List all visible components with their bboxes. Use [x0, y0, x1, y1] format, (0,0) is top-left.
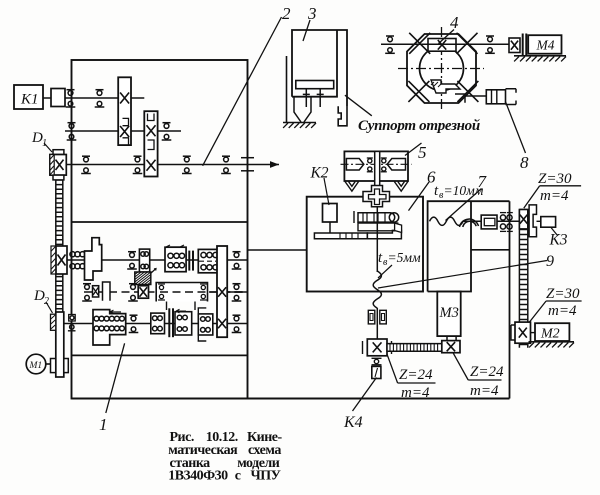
sliding gear block Z1	[118, 77, 131, 145]
svg-text:m=4: m=4	[470, 383, 499, 399]
label Z30 m4 bottom	[529, 286, 581, 322]
caption line 1	[170, 430, 283, 445]
motor M4	[528, 35, 561, 54]
friction clutch hatched	[135, 269, 156, 285]
bearing circles shaft IV at wall	[70, 252, 85, 269]
switch K4	[372, 366, 381, 378]
gear box shaft VI mid	[151, 313, 165, 334]
horizontal screw wavy t10	[430, 217, 482, 227]
double arrow over clutch gear	[166, 245, 184, 249]
svg-text:М4: М4	[536, 37, 555, 52]
svg-text:1В340Ф30: 1В340Ф30	[168, 469, 228, 484]
bearing shaft V left	[82, 284, 92, 301]
svg-text:М3: М3	[439, 305, 459, 321]
svg-text:8: 8	[520, 153, 529, 172]
svg-text:=5мм: =5мм	[388, 250, 421, 265]
tall double gear block shafts V-VI	[217, 246, 227, 337]
gear sleeve with rollers shaft IV	[139, 249, 149, 272]
label 2	[203, 4, 291, 166]
wire shaft IV	[56, 259, 248, 261]
pulley D1	[50, 150, 66, 180]
svg-text:М2: М2	[540, 327, 560, 342]
bearing turret shaft right	[485, 36, 495, 53]
clutch plates shaft VI	[168, 308, 170, 337]
wire connector to gearbox	[248, 249, 307, 251]
bearing shaft III	[182, 156, 192, 173]
svg-text:3: 3	[307, 4, 317, 23]
motor M1	[26, 354, 50, 374]
label tv=5mm	[378, 250, 421, 278]
stepped hub shaft IV	[85, 238, 102, 280]
svg-text:К2: К2	[310, 165, 329, 182]
svg-text:с: с	[235, 469, 241, 484]
machine bed bottom line	[72, 398, 510, 400]
hydraulic cylinder	[465, 89, 516, 105]
pinion Z30 top	[519, 210, 527, 229]
vertical rack	[519, 210, 527, 348]
gear box shaft VI right	[198, 302, 213, 341]
fixed gear shaft V	[138, 286, 148, 299]
belt gear on shaft IV	[51, 246, 67, 274]
wall crossing marks shaft III	[241, 157, 254, 159]
bearing shaft I at wall	[66, 90, 76, 107]
coupling on shaft I	[51, 89, 65, 107]
coupling flange M4	[522, 34, 524, 57]
svg-text:m=4: m=4	[540, 188, 569, 204]
label 9	[378, 253, 554, 288]
label 5	[405, 143, 427, 162]
collet cross actuator	[363, 186, 390, 207]
hub shaft V left	[103, 282, 111, 301]
bearing shaft II	[162, 123, 172, 140]
label 3	[303, 4, 317, 41]
bearing shaft IV	[127, 252, 137, 269]
feed drum cylinder	[354, 211, 402, 233]
label 8	[506, 102, 530, 172]
label 7	[446, 172, 488, 221]
gear cluster shaft VI left	[93, 310, 126, 345]
svg-text:4: 4	[450, 13, 459, 32]
svg-text:m=4: m=4	[548, 303, 577, 319]
gear box shaft VI	[175, 309, 192, 335]
bearing shaft V mid	[128, 284, 138, 301]
label D2	[33, 288, 53, 313]
motor M2	[535, 323, 569, 341]
label Z30 m4 top	[524, 171, 581, 208]
long sleeve shaft V	[156, 283, 247, 311]
collet draw tube	[375, 151, 380, 206]
svg-text:К3: К3	[549, 232, 568, 249]
bearing shaft II at wall	[67, 123, 77, 140]
turret head item 4	[398, 27, 484, 110]
column right wall	[509, 201, 511, 398]
sliding gear block Z2	[144, 111, 157, 176]
safety clutch on screw	[368, 308, 386, 339]
vertical feed screw wavy	[373, 207, 381, 308]
leader for support	[345, 95, 372, 116]
svg-text:К4: К4	[343, 414, 363, 431]
wire shaft I	[43, 97, 144, 99]
bearing block	[497, 213, 519, 232]
clutch gear box shaft IV right	[198, 249, 226, 272]
caption line 2	[168, 443, 281, 458]
caption line 3	[170, 456, 280, 471]
bearing shaft III	[81, 156, 91, 173]
V notches	[345, 182, 359, 192]
svg-text:2: 2	[282, 4, 291, 23]
bearing shaft I	[95, 90, 105, 107]
label 6	[409, 168, 437, 211]
svg-text:1: 1	[99, 415, 108, 434]
wire shaft II	[65, 130, 181, 132]
housing item 7	[428, 201, 510, 291]
collet head item 5	[341, 151, 412, 191]
wire turret shaft	[381, 43, 509, 45]
bearing hooks near D2	[68, 325, 76, 331]
small gear shaft V	[93, 286, 99, 297]
label 1	[99, 343, 125, 434]
svg-text:Z=24: Z=24	[399, 367, 433, 383]
bearing shaft VI right	[232, 315, 242, 332]
svg-text:Z=24: Z=24	[470, 364, 504, 380]
bearing shaft V right	[232, 284, 242, 301]
svg-text:ЧПУ: ЧПУ	[251, 469, 281, 484]
gear at M4	[509, 38, 520, 53]
bearing shaft IV right	[232, 252, 242, 269]
svg-text:9: 9	[546, 253, 554, 270]
pinion Z30 bottom	[511, 322, 535, 343]
pinion Z24 right	[442, 341, 460, 353]
wire shaft VI	[64, 323, 248, 325]
ground under M2	[529, 342, 575, 348]
wire shaft III with arrow	[66, 164, 279, 166]
bearing shaft VI	[129, 315, 139, 332]
gearbox housing frame	[72, 60, 248, 399]
pulley D2 assembly	[51, 312, 69, 377]
tool pocket in turret	[431, 80, 460, 93]
coupling on screw	[481, 215, 497, 229]
svg-text:К1: К1	[20, 92, 38, 108]
label tv=10mm	[434, 183, 484, 201]
rack horizontal	[387, 344, 442, 352]
svg-text:Суппорт отрезной: Суппорт отрезной	[358, 118, 480, 134]
bearing under pinion	[372, 358, 382, 365]
label D1	[31, 130, 52, 152]
label 4	[439, 13, 460, 44]
command device K1	[14, 85, 43, 109]
label K4	[343, 378, 377, 432]
wire shaft V spline	[84, 291, 248, 293]
bracket at Z30	[529, 205, 536, 237]
svg-text:Z=30: Z=30	[546, 286, 580, 302]
svg-text:m=4: m=4	[401, 385, 430, 401]
clutch gear box shaft IV left	[165, 247, 186, 272]
pinion Z24 left	[363, 339, 392, 356]
switch K2	[310, 165, 338, 223]
rack bar in K2 box	[314, 222, 401, 239]
bar stock magazine item 3	[283, 30, 347, 128]
svg-text:М1: М1	[29, 361, 43, 371]
switch K3	[537, 217, 568, 249]
bearing shaft III	[221, 156, 231, 173]
ground under M4	[514, 56, 566, 62]
svg-text:5: 5	[418, 143, 427, 162]
svg-text:Z=30: Z=30	[538, 171, 572, 187]
caption line 4	[168, 469, 280, 484]
bearing turret shaft left	[385, 36, 395, 53]
motor M3	[437, 292, 460, 341]
wall bearing shaft VI	[69, 315, 76, 322]
turret index gear	[428, 39, 456, 52]
label Z24 m4 left	[387, 354, 436, 401]
clutch plates	[188, 251, 190, 271]
toothed belt	[56, 180, 63, 312]
bearing shaft III	[133, 156, 143, 173]
housing box item 6 area	[307, 197, 423, 292]
label Z24 m4 right	[453, 353, 504, 399]
